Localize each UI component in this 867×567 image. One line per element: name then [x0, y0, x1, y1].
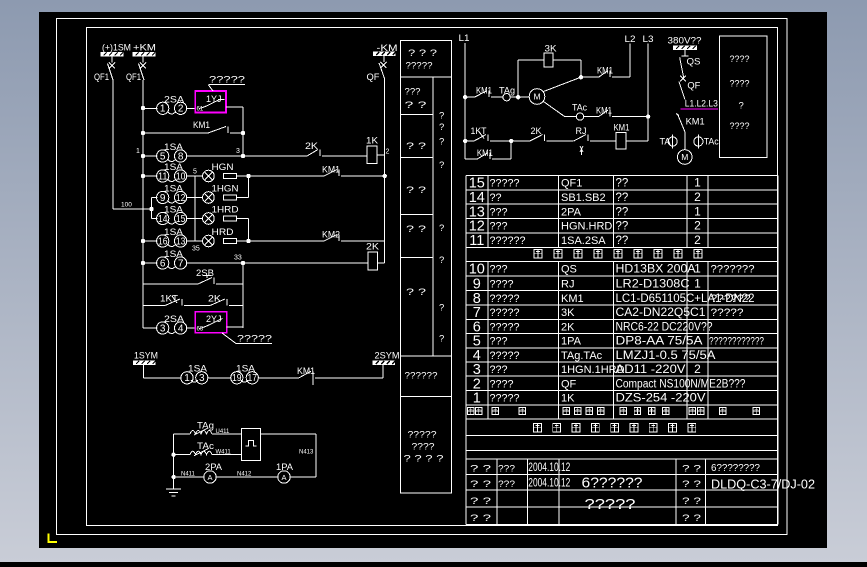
wire left rail: [142, 80, 144, 328]
legend box: [720, 36, 767, 158]
BOM row 12: [469, 219, 701, 235]
svg-text:?????: ?????: [209, 75, 245, 85]
svg-text:?????: ?????: [490, 178, 520, 190]
svg-text:1: 1: [694, 176, 701, 190]
pushbutton 2SB: [143, 268, 243, 284]
svg-text:HD13BX 200A: HD13BX 200A: [616, 264, 696, 276]
svg-text:?: ?: [439, 122, 444, 133]
svg-text:N413: N413: [299, 450, 314, 456]
svg-text:?: ?: [439, 160, 444, 171]
svg-text:M: M: [681, 152, 688, 162]
wire sync row: [144, 377, 182, 379]
transducer (pulse box): [242, 428, 261, 460]
wire: [207, 377, 231, 379]
svg-text:?: ?: [439, 111, 444, 122]
svg-text:N412: N412: [237, 472, 252, 478]
svg-text:??????: ??????: [490, 235, 526, 247]
svg-text:????: ????: [730, 79, 750, 90]
svg-text:2SB: 2SB: [196, 268, 214, 278]
svg-text:LMZJ1-0.5 75/5A: LMZJ1-0.5 75/5A: [616, 350, 716, 362]
svg-text:L2: L2: [625, 34, 636, 45]
selector switch 2SA terminals 1,2: [157, 95, 187, 115]
svg-text:DP8-AA 75/5A: DP8-AA 75/5A: [616, 336, 703, 348]
svg-text:????: ????: [490, 278, 514, 290]
svg-text:1: 1: [136, 148, 140, 155]
svg-text:??: ??: [616, 235, 629, 247]
svg-text:17: 17: [248, 373, 258, 384]
svg-text:L1.L2.L3: L1.L2.L3: [685, 99, 718, 110]
wire to motor: [684, 132, 686, 150]
resistor 3K: [544, 44, 581, 78]
svg-text:2004.10.12: 2004.10.12: [528, 478, 570, 490]
svg-text:???: ???: [498, 479, 515, 490]
net L1.L2.L3: [681, 99, 719, 110]
svg-text:2PA: 2PA: [205, 462, 222, 472]
svg-text:2: 2: [694, 190, 701, 204]
svg-text:1KT: 1KT: [471, 126, 487, 136]
svg-text:???: ???: [490, 221, 508, 233]
wire 2YJ to node column: [227, 326, 243, 328]
svg-text:HGN: HGN: [212, 162, 234, 172]
svg-text:HRD: HRD: [212, 227, 235, 237]
strip texts: [404, 48, 445, 465]
svg-text:????????????: ????????????: [709, 336, 764, 348]
svg-text:13: 13: [176, 236, 186, 247]
svg-text:2: 2: [178, 104, 184, 115]
relay contact 2YJ (highlight box): [195, 312, 226, 333]
switch 1SA 16,13 + lamp HRD + resistor: [141, 227, 249, 247]
contactor coil KM1: [614, 123, 649, 150]
svg-text:RJ: RJ: [561, 278, 574, 290]
svg-text:???????: ???????: [711, 264, 755, 276]
svg-text:DLDQ-C3-7/DJ-02: DLDQ-C3-7/DJ-02: [711, 478, 815, 492]
svg-text:L1: L1: [459, 33, 470, 44]
switch 1SA 11,10 + lamp HGN + resistor: [141, 162, 249, 182]
svg-text:10: 10: [176, 171, 186, 182]
BOM row 2: [473, 376, 746, 392]
svg-text:? ? ?: ? ? ?: [408, 48, 437, 59]
svg-text:?????: ?????: [406, 61, 433, 72]
svg-text:1SA.2SA: 1SA.2SA: [561, 235, 606, 247]
svg-text:DZS-254 -220V: DZS-254 -220V: [616, 393, 706, 405]
switch 1SA terminals 1,3: [181, 364, 208, 385]
svg-text:11: 11: [469, 233, 484, 249]
svg-text:6??????: 6??????: [582, 475, 643, 492]
svg-text:1K: 1K: [366, 136, 378, 146]
node L1: [463, 95, 467, 99]
node to 3K branch: [516, 95, 520, 99]
metering left rail: [173, 434, 175, 489]
svg-text:2: 2: [694, 219, 701, 233]
svg-text:19: 19: [232, 373, 242, 384]
contact KM1 (lamps): [249, 165, 387, 179]
svg-text:33: 33: [234, 255, 242, 262]
svg-text:1K: 1K: [561, 393, 575, 405]
wire M to TAc branch: [544, 102, 565, 117]
source 380V: [668, 36, 702, 57]
svg-text:??: ??: [616, 221, 629, 233]
svg-text:2PA: 2PA: [561, 206, 582, 218]
disconnect QS: [680, 57, 701, 82]
wire 1YJ to node column: [226, 106, 243, 108]
motor M (generator set): [529, 89, 545, 105]
svg-text:5: 5: [193, 169, 197, 176]
svg-text:???: ???: [490, 206, 508, 218]
svg-text:3: 3: [199, 373, 205, 384]
svg-text:1HRD: 1HRD: [212, 205, 240, 215]
breaker QF (main): [679, 81, 701, 100]
svg-text:2K: 2K: [561, 321, 575, 333]
svg-text:????: ????: [730, 121, 750, 132]
svg-text:KM1: KM1: [193, 120, 210, 130]
ammeter 1PA: [276, 462, 316, 483]
lamp feed bus 5/35: [192, 169, 200, 253]
svg-text:L3: L3: [643, 34, 654, 45]
contact KM2 (lamps): [249, 230, 385, 242]
svg-text:????: ????: [730, 54, 750, 65]
bus 1SYM: [133, 351, 158, 378]
svg-text:? ?: ? ?: [470, 479, 491, 490]
svg-text:?: ?: [439, 223, 444, 234]
svg-text:3: 3: [160, 323, 166, 334]
wire 100: [113, 198, 154, 219]
svg-text:4: 4: [178, 323, 184, 334]
svg-text:?: ?: [439, 334, 444, 345]
BOM row 7: [473, 305, 744, 321]
svg-text:????: ????: [412, 442, 435, 453]
svg-text:? ?: ? ?: [682, 513, 701, 524]
svg-text:???: ???: [405, 87, 421, 98]
BOM row 9: [473, 276, 701, 292]
contact KM1 (TAc branch): [596, 106, 648, 117]
relay coil 1K: [366, 136, 390, 164]
svg-text:?????: ?????: [585, 496, 636, 513]
svg-text:2K: 2K: [531, 126, 542, 136]
ammeter 2PA: [174, 462, 222, 483]
CT TAc: [174, 441, 242, 456]
svg-text:???: ???: [498, 464, 515, 475]
right rail (1K/2K): [384, 79, 386, 263]
svg-text:?: ?: [739, 101, 744, 112]
svg-text:?: ?: [439, 255, 444, 266]
node 33: [187, 262, 243, 264]
contact 2K (power): [511, 126, 574, 141]
svg-text:? ?: ? ?: [682, 464, 701, 475]
bus 2SYM: [373, 351, 400, 378]
contact 1KT (power, delay): [465, 126, 513, 143]
svg-text:KM1: KM1: [597, 66, 613, 76]
svg-text:35: 35: [192, 246, 200, 253]
svg-text:14: 14: [158, 214, 168, 225]
CT TAg (power): [499, 86, 529, 101]
svg-text:1: 1: [473, 391, 481, 407]
BOM row 3: [473, 362, 701, 378]
svg-text:2: 2: [694, 233, 701, 247]
inner border frame: [87, 28, 778, 526]
svg-text:2: 2: [386, 149, 390, 156]
contact KM1 (upper): [581, 66, 630, 78]
svg-text:QS: QS: [687, 57, 701, 68]
svg-text:QS: QS: [561, 264, 577, 276]
svg-text:? ?: ? ?: [682, 479, 701, 490]
contact KM1 (bypass): [465, 141, 511, 159]
title block texts: [470, 462, 815, 524]
svg-text:???: ???: [490, 364, 508, 376]
BOM row 4: [473, 348, 716, 364]
svg-text:? ? ? ?: ? ? ? ?: [404, 454, 444, 465]
svg-text:3K: 3K: [545, 44, 557, 54]
svg-text:10: 10: [469, 262, 485, 278]
svg-text:? ?: ? ?: [406, 287, 426, 298]
breaker QF (control supply): [367, 56, 387, 84]
svg-text:TAc: TAc: [197, 441, 215, 451]
CT TA: [660, 135, 678, 149]
svg-text:? ?: ? ?: [406, 224, 426, 235]
selector switch 2SA terminals 3,4: [143, 314, 195, 334]
svg-text:??: ??: [616, 192, 629, 204]
BOM row 8: [473, 291, 755, 307]
UCS icon: [49, 534, 58, 543]
svg-text:QF1: QF1: [561, 178, 582, 190]
title block grid: [466, 451, 778, 525]
switch 1SA terminals 5,8: [136, 142, 187, 162]
svg-text:1PA: 1PA: [561, 336, 582, 348]
breaker QF1 (left): [94, 56, 115, 83]
svg-text:1SYM: 1SYM: [134, 351, 158, 362]
switch 1SA terminals 19,17: [231, 364, 259, 385]
svg-text:?: ?: [439, 137, 444, 148]
switch 1SA 6,7: [141, 249, 187, 269]
svg-text:100: 100: [121, 202, 132, 209]
motor M (single line): [678, 150, 693, 165]
svg-text:? ?: ? ?: [682, 496, 701, 507]
svg-text:8: 8: [178, 151, 184, 162]
wire QF1 down-rail: [112, 80, 114, 209]
contact 1KT (delay): [143, 294, 182, 306]
switch 1SA 14,15 + lamp 1HRD + resistor: [152, 205, 249, 225]
svg-text:A: A: [207, 473, 212, 482]
svg-text:??: ??: [616, 206, 629, 218]
svg-text:1: 1: [694, 262, 701, 276]
svg-text:??????: ??????: [711, 293, 751, 305]
callout ????? for 1YJ: [209, 75, 246, 92]
svg-text:??????: ??????: [405, 371, 438, 382]
svg-text:?????: ?????: [490, 393, 520, 405]
svg-text:5: 5: [160, 151, 166, 162]
thermal relay RJ contact: [574, 126, 616, 155]
svg-text:7: 7: [178, 258, 184, 269]
BOM row 1: [473, 391, 706, 407]
svg-text:6: 6: [160, 258, 166, 269]
svg-text:???: ???: [490, 336, 508, 348]
svg-text:TAc: TAc: [572, 103, 587, 113]
svg-text:????: ????: [490, 378, 514, 390]
CT TAc (single line): [694, 135, 719, 149]
node row1: [141, 106, 145, 110]
svg-text:A: A: [281, 473, 286, 482]
svg-text:3K: 3K: [561, 307, 575, 319]
svg-text:1HGN: 1HGN: [212, 184, 239, 194]
BOM table grid: [466, 175, 778, 459]
callout ????? for 2YJ: [222, 333, 272, 344]
wire 2SA to 1YJ: [187, 107, 196, 109]
svg-text:AD11 -220V: AD11 -220V: [616, 364, 686, 376]
BOM row 5: [473, 334, 764, 350]
switch 1SA 9,12 + lamp 1HGN + resistor: [152, 184, 249, 204]
BOM row 10: [469, 262, 755, 278]
svg-text:QF: QF: [367, 72, 380, 83]
BOM row 13: [469, 204, 701, 220]
bus +KM: [133, 43, 157, 57]
svg-text:?????: ?????: [237, 334, 272, 344]
svg-text:?????: ?????: [490, 321, 520, 333]
relay coil 2K: [366, 242, 385, 271]
contactor KM1 (single line): [676, 114, 705, 132]
CT TAc (power): [572, 103, 599, 121]
svg-text:KM1: KM1: [476, 86, 492, 96]
BOM row 11: [469, 233, 701, 249]
svg-text:KM1: KM1: [686, 117, 705, 128]
table header: switchboard materials: [534, 424, 696, 433]
wire N412: [216, 472, 278, 478]
svg-text:TAg: TAg: [197, 421, 214, 431]
svg-text:?????: ?????: [490, 293, 520, 305]
svg-text:2K: 2K: [305, 141, 318, 151]
terminal strip table: [401, 41, 452, 494]
svg-text:HGN.HRD: HGN.HRD: [561, 221, 612, 233]
svg-text:1: 1: [694, 204, 701, 218]
svg-text:1: 1: [160, 104, 166, 115]
svg-text:LR2-D1308C: LR2-D1308C: [616, 278, 690, 290]
svg-text:? ?: ? ?: [470, 513, 491, 524]
contact KM1 (sync): [258, 366, 384, 385]
svg-text:1: 1: [694, 276, 701, 290]
node 3: [187, 155, 243, 157]
bus (+)1SM: [101, 43, 132, 57]
svg-text:? ?: ? ?: [470, 496, 491, 507]
svg-text:?????: ?????: [408, 430, 437, 441]
contact 2K: [243, 141, 367, 156]
contact 2K (row): [184, 294, 243, 306]
svg-text:QF1: QF1: [94, 72, 109, 83]
contact KM1 (seal-in): [141, 120, 245, 135]
svg-text:2: 2: [694, 362, 701, 376]
svg-text:KM1: KM1: [614, 123, 630, 133]
wire to 2SA: [143, 107, 157, 109]
svg-text:6????????: 6????????: [711, 462, 760, 474]
bus -KM: [373, 43, 397, 56]
svg-text:??: ??: [490, 192, 502, 204]
svg-text:1: 1: [184, 373, 190, 384]
wire M to upper branch: [544, 77, 581, 91]
svg-text:11: 11: [158, 171, 168, 182]
svg-text:???: ???: [490, 264, 508, 276]
svg-text:? ?: ? ?: [406, 185, 426, 196]
svg-text:?????: ?????: [490, 307, 520, 319]
svg-text:NRC6-22 DC220V??: NRC6-22 DC220V??: [616, 321, 713, 333]
svg-text:SB1.SB2: SB1.SB2: [561, 192, 606, 204]
ground: [166, 489, 181, 496]
wire to 2K coil: [243, 262, 368, 264]
svg-text:9: 9: [160, 193, 166, 204]
svg-text:??: ??: [616, 178, 629, 190]
BOM row 14: [469, 190, 701, 206]
contact KM1 (motor fwd): [465, 86, 503, 98]
lamp pair junction A: [246, 174, 250, 178]
svg-text:M: M: [533, 92, 540, 102]
lamp pair junction B: [246, 239, 250, 243]
svg-text:RJ: RJ: [576, 126, 587, 136]
breaker QF1 (second): [126, 56, 146, 83]
svg-text:TAg.TAc: TAg.TAc: [561, 350, 603, 362]
svg-text:?????: ?????: [490, 350, 520, 362]
svg-text:2K: 2K: [366, 242, 379, 252]
svg-text:3: 3: [236, 148, 240, 155]
svg-text:2SYM: 2SYM: [375, 351, 400, 362]
svg-text:? ?: ? ?: [405, 100, 427, 111]
svg-text:TAc: TAc: [704, 137, 719, 148]
svg-text:CA2-DN22Q5C1: CA2-DN22Q5C1: [616, 307, 706, 319]
svg-text:? ?: ? ?: [406, 141, 426, 152]
svg-text:12: 12: [176, 193, 186, 204]
BOM row 15: [469, 176, 701, 192]
outer border frame: [57, 19, 788, 535]
svg-text:? ?: ? ?: [470, 464, 491, 475]
wire N413: [261, 434, 317, 477]
svg-text:9: 9: [473, 276, 481, 292]
svg-text:16: 16: [158, 236, 168, 247]
svg-text:QF: QF: [561, 378, 577, 390]
BOM row 6: [473, 319, 713, 335]
svg-text:15: 15: [176, 214, 186, 225]
relay contact 1YJ (highlight box): [195, 91, 226, 113]
svg-text:?: ?: [439, 303, 444, 314]
svg-text:380V??: 380V??: [668, 36, 702, 47]
column header row: [468, 408, 760, 415]
svg-text:?????: ?????: [711, 307, 744, 319]
table header: control panel materials: [534, 250, 702, 259]
CT TAg: [174, 421, 242, 436]
svg-text:QF1: QF1: [126, 72, 141, 83]
svg-text:2004.10.12: 2004.10.12: [528, 462, 570, 474]
svg-text:Compact NS100N/ME2B???: Compact NS100N/ME2B???: [616, 378, 746, 390]
svg-text:KM1: KM1: [561, 293, 584, 305]
svg-text:QF: QF: [687, 81, 700, 92]
